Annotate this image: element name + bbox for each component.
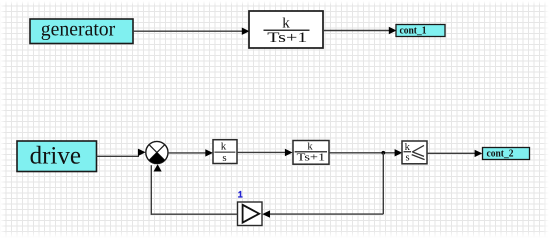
source annotation "drive" <box>17 141 97 172</box>
svg-text:generator: generator <box>41 19 116 41</box>
feedback input arrowhead into sum junction <box>154 164 162 171</box>
svg-text:cont_2: cont_2 <box>487 149 514 160</box>
sum junction S1 <box>146 141 168 163</box>
wire generator to transfer fcn <box>133 28 250 35</box>
svg-text:k: k <box>282 15 290 31</box>
svg-text:k: k <box>221 141 227 153</box>
svg-text:s: s <box>405 153 409 164</box>
output port cont_1 <box>396 25 445 37</box>
gain value label 1 <box>238 191 242 198</box>
wire drive to sum junction <box>97 149 146 157</box>
feedback wire gain block to sum junction <box>151 165 237 215</box>
feedback wire node to gain block <box>262 210 383 217</box>
wire integrator to transfer fcn U3 <box>237 149 293 156</box>
feedback wire down from node <box>382 153 384 214</box>
integrator block U2 k/s <box>213 140 237 164</box>
svg-text:Ts+1: Ts+1 <box>297 152 326 164</box>
gain block G1 value 1 <box>238 202 263 226</box>
wire limited integrator to cont_2 <box>427 150 482 157</box>
svg-text:s: s <box>222 152 226 164</box>
svg-text:cont_1: cont_1 <box>400 25 427 36</box>
transfer function block U1 k/(Ts+1) <box>249 11 323 48</box>
source annotation "generator" <box>30 19 133 44</box>
svg-text:Ts+1: Ts+1 <box>267 30 307 46</box>
transfer function block U3 k/(Ts+1) <box>293 141 329 165</box>
wire transfer fcn U3 to limited integrator <box>329 149 402 156</box>
wire sum junction to integrator k/s <box>168 149 213 156</box>
limited integrator block U4 k/s saturating <box>402 141 427 164</box>
output port cont_2 <box>483 148 530 160</box>
node junction dot <box>381 151 385 155</box>
wire transfer fcn to cont_1 <box>323 27 397 34</box>
svg-text:drive: drive <box>30 142 81 169</box>
